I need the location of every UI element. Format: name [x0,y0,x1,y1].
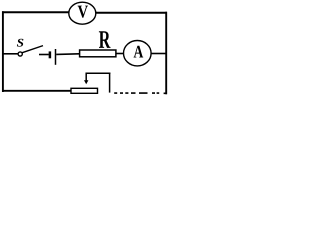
voltmeter label V [78,6,88,18]
wire: top-left horizontal to voltmeter [2,11,69,13]
rheostat wiper arrowhead [84,80,88,84]
wire: bottom-left horizontal to rheostat [2,90,71,92]
wire: switch to battery [39,54,49,56]
wire: left rail vertical [2,11,4,92]
rheostat body [71,88,98,93]
ammeter label A [134,46,144,58]
battery negative plate (short thick) [49,51,52,58]
voltmeter U1 [69,2,96,24]
wire: ammeter to right rail [151,53,166,55]
wire: voltmeter to top-right corner [96,12,167,14]
wire: stub from left rail to switch [3,53,18,55]
wire: resistor to ammeter [116,53,124,55]
wire: wiper horizontal connector [86,72,111,74]
wire: right rail vertical [165,12,167,94]
resistor label R [99,31,111,48]
rheostat wiper arrow stem [85,73,87,81]
wire: battery to resistor R [56,53,79,56]
switch S blade (open) [22,46,43,53]
battery positive plate (long thin) [55,49,57,65]
switch S pivot circle [18,52,22,56]
wire: dashed connection to right rail [114,92,167,94]
switch label S [17,39,24,47]
ammeter U2 [124,41,152,66]
resistor R body [80,50,116,57]
wire: wiper connector descender [109,73,111,93]
